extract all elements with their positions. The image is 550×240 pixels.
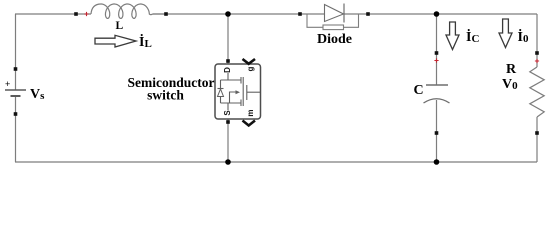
body diode cathode bar bbox=[218, 88, 224, 90]
capacitor C top plate bbox=[426, 84, 448, 86]
svg-text:C: C bbox=[414, 83, 424, 98]
wire top rail mid bbox=[153, 13, 325, 15]
wire top rail right bbox=[344, 13, 537, 15]
battery source Vs short plate bbox=[11, 95, 21, 97]
body diode triangle bbox=[218, 89, 224, 97]
node square resistor top bbox=[535, 51, 539, 55]
node dot top capacitor bbox=[434, 11, 440, 17]
node square right of inductor bbox=[164, 12, 168, 16]
connector squares bbox=[14, 12, 539, 135]
top bar bbox=[221, 79, 242, 81]
drain stem bbox=[227, 73, 229, 80]
current arrow I0 bbox=[499, 19, 512, 48]
wire switch branch upper bbox=[227, 14, 229, 64]
junction dots bbox=[225, 11, 439, 165]
gate lead bbox=[247, 91, 260, 93]
svg-text:m: m bbox=[246, 109, 255, 116]
wire inductor to node bbox=[153, 13, 166, 15]
svg-text:S: S bbox=[223, 110, 232, 116]
svg-text:switch: switch bbox=[147, 88, 184, 103]
svg-text:Vs: Vs bbox=[30, 87, 45, 102]
wire capacitor branch lower bbox=[436, 100, 438, 162]
node square diode right bbox=[366, 12, 370, 16]
red plus capacitor bbox=[434, 58, 438, 62]
current arrow IL bbox=[95, 35, 136, 47]
red polarity marks bbox=[84, 12, 539, 63]
diode snubber path bbox=[307, 14, 359, 27]
wire left rail upper bbox=[15, 14, 17, 90]
body arrowhead bbox=[236, 90, 241, 94]
bottom bar bbox=[221, 102, 242, 104]
wire bottom rail bbox=[15, 161, 537, 163]
node dot bottom switch bbox=[225, 159, 231, 165]
capacitor C curved plate bbox=[424, 99, 450, 103]
resistor R zigzag bbox=[530, 67, 544, 117]
transistor internal drawing bbox=[218, 73, 261, 110]
node square diode left bbox=[298, 12, 302, 16]
channel bar bbox=[242, 77, 244, 106]
svg-text:V0: V0 bbox=[502, 77, 518, 92]
MOSFET switch block body bbox=[215, 64, 261, 119]
snubber resistor box bbox=[323, 25, 344, 30]
node square switch bottom bbox=[226, 120, 230, 124]
output port chevron m bbox=[243, 121, 256, 126]
svg-text:R: R bbox=[506, 62, 517, 77]
wire right rail upper bbox=[536, 14, 538, 67]
source contact bbox=[240, 100, 242, 107]
current arrow IC bbox=[446, 22, 459, 50]
wire capacitor branch upper bbox=[436, 14, 438, 85]
wire top rail bbox=[15, 13, 91, 15]
svg-text:Diode: Diode bbox=[317, 32, 352, 47]
red plus resistor bbox=[535, 59, 539, 63]
gate input chevron bbox=[243, 59, 256, 64]
node square capacitor bottom bbox=[435, 131, 439, 135]
node square switch top bbox=[226, 59, 230, 63]
node square left of inductor bbox=[74, 12, 78, 16]
wire left rail lower bbox=[15, 96, 17, 162]
wire right rail lower bbox=[536, 117, 538, 162]
svg-text:+: + bbox=[5, 79, 10, 89]
node square capacitor top bbox=[435, 51, 439, 55]
body diode leads bbox=[220, 80, 222, 103]
node square source top bbox=[14, 67, 18, 71]
inductor L coil bbox=[91, 4, 153, 18]
node square resistor bottom bbox=[535, 131, 539, 135]
svg-text:g: g bbox=[246, 66, 255, 71]
battery source Vs long plate bbox=[5, 89, 26, 91]
source stem bbox=[227, 103, 229, 110]
drain contact bbox=[240, 77, 242, 84]
diode D1 cathode bar bbox=[343, 4, 345, 23]
node square source bottom bbox=[14, 112, 18, 116]
red plus inductor bbox=[84, 12, 88, 16]
node dot top switch bbox=[225, 11, 231, 17]
node dot bottom capacitor bbox=[434, 159, 440, 165]
wire switch branch lower bbox=[227, 119, 229, 162]
gate plate bbox=[246, 85, 248, 100]
svg-text:D: D bbox=[223, 67, 232, 73]
diode D1 triangle bbox=[325, 5, 344, 22]
body connection bbox=[230, 92, 238, 103]
svg-text:L: L bbox=[116, 20, 124, 32]
